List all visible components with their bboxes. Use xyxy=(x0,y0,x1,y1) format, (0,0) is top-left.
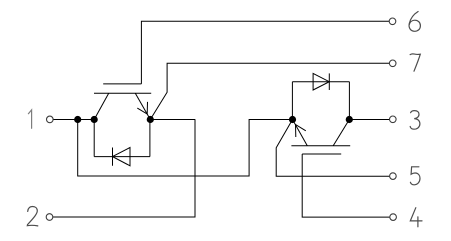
collector leg Q1 xyxy=(94,93,109,119)
wire terminal5 xyxy=(276,120,389,177)
terminal circle 6 xyxy=(389,18,396,25)
body bar Q1 xyxy=(94,92,151,94)
junction node E xyxy=(346,116,353,123)
pin label 5 xyxy=(410,167,420,185)
pin label 6 xyxy=(409,12,420,32)
pin label 2 xyxy=(27,207,38,226)
diode D2 axis xyxy=(292,81,349,83)
wire nodeA loop xyxy=(78,120,293,177)
body bar Q2 xyxy=(291,145,350,147)
wire terminal7 rail xyxy=(150,63,389,119)
gate plate Q1 xyxy=(103,83,141,85)
junction node D xyxy=(289,116,296,123)
junction node C xyxy=(147,116,154,123)
collector leg Q2 xyxy=(333,120,349,146)
gate plate Q2 xyxy=(302,153,341,155)
wire terminal2 xyxy=(53,120,195,218)
terminal circle 3 xyxy=(390,116,397,123)
diode D2 cathode bar xyxy=(328,73,330,90)
terminal circle 2 xyxy=(46,214,53,221)
emitter arrow Q1 xyxy=(137,102,147,114)
diode D1 axis xyxy=(94,156,150,158)
wire terminal4 xyxy=(302,154,389,217)
emitter leg Q1 xyxy=(135,93,150,119)
wire terminal3 xyxy=(349,119,389,121)
diode D2 cathode wire xyxy=(348,82,350,120)
wire terminal6 rail xyxy=(141,21,389,84)
emitter arrow Q2 xyxy=(296,125,306,138)
terminal circle 4 xyxy=(390,214,397,221)
terminal circle 1 xyxy=(47,116,54,123)
pin label 4 xyxy=(410,208,422,227)
pin label 1 xyxy=(28,110,31,128)
diode D1 anode wire xyxy=(149,120,151,157)
diode D1 cathode wire xyxy=(93,120,95,157)
diode D2 anode wire xyxy=(291,82,293,120)
diode D2 triangle xyxy=(313,73,329,90)
wire terminal1 xyxy=(53,119,94,121)
diode D1 cathode bar xyxy=(112,148,114,166)
terminal circle 7 xyxy=(389,60,396,67)
junction node A xyxy=(74,116,81,123)
pin label 7 xyxy=(410,54,420,71)
diode D1 triangle xyxy=(113,148,131,166)
terminal circle 5 xyxy=(390,173,397,180)
junction node B xyxy=(91,116,98,123)
pin label 3 xyxy=(410,111,420,130)
wire nodeC right xyxy=(150,119,195,121)
emitter leg Q2 xyxy=(293,120,308,146)
